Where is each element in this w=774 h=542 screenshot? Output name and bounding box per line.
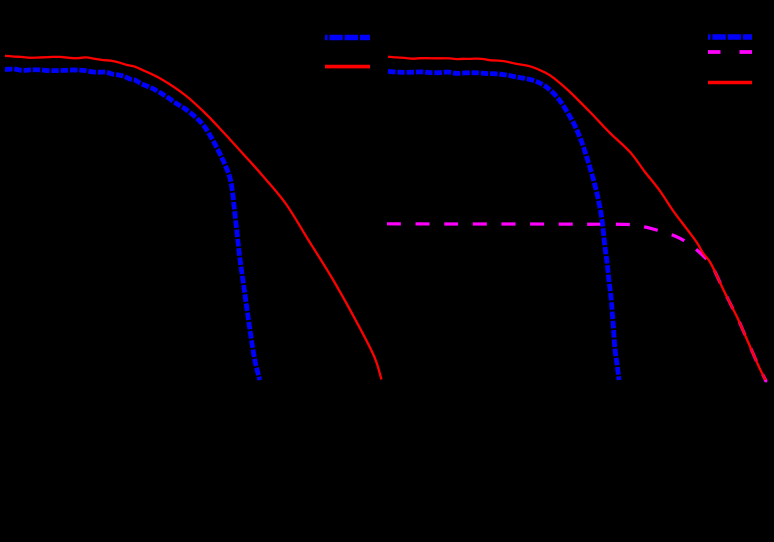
right plot magenta dashed curve [387,224,766,381]
right plot red solid curve [388,57,766,380]
left plot red solid curve [5,56,382,380]
right legend magenta dashed handle [708,50,752,54]
left legend red solid handle [325,65,370,69]
right plot blue dotted curve [388,71,619,380]
left plot blue dotted curve [5,69,260,380]
right legend red solid handle [708,81,752,85]
left legend blue dotted handle [325,35,370,40]
right legend blue dotted handle [708,34,752,39]
